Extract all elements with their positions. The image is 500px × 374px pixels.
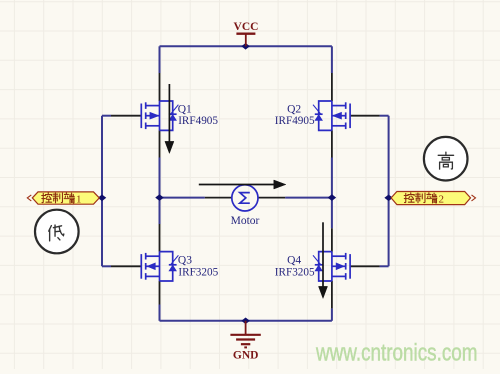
svg-text:IRF4905: IRF4905 bbox=[178, 115, 218, 127]
svg-text:2: 2 bbox=[439, 193, 445, 205]
svg-text:IRF4905: IRF4905 bbox=[275, 115, 315, 127]
wire right rail mid node to Q4 drain bbox=[331, 198, 333, 229]
wire left gate bus top corner bbox=[102, 115, 111, 117]
wire right gate bus bbox=[388, 116, 390, 267]
pin motor left bbox=[205, 197, 232, 199]
pin Q4 source bbox=[331, 281, 333, 308]
junction mid-right node bbox=[328, 195, 335, 201]
pin Q3 drain bbox=[159, 224, 161, 252]
wire bottom GND rail bbox=[160, 320, 332, 322]
pin Q1 source bbox=[159, 130, 161, 157]
svg-text:www.cntronics.com: www.cntronics.com bbox=[315, 339, 477, 366]
motor M1 circle bbox=[232, 185, 258, 211]
svg-text:Q4: Q4 bbox=[287, 254, 301, 266]
wire left rail mid node to Q3 drain bbox=[159, 198, 161, 224]
transistor Q3 bbox=[141, 252, 178, 281]
arrow current flow down through Q1 bbox=[165, 84, 174, 153]
svg-text:Motor: Motor bbox=[231, 215, 260, 227]
svg-text:IRF3205: IRF3205 bbox=[275, 266, 315, 278]
ground GND symbol bbox=[230, 321, 260, 348]
pin Q2 gate bbox=[350, 115, 380, 117]
junction left gate bus node bbox=[98, 195, 105, 201]
svg-text:IRF3205: IRF3205 bbox=[178, 266, 218, 278]
wire mid rail right (motor to node) bbox=[285, 197, 332, 199]
wire mid rail left (node to motor) bbox=[160, 197, 205, 199]
wire left gate bus bbox=[101, 116, 103, 267]
svg-text:GND: GND bbox=[233, 350, 259, 362]
wire left rail upper (VCC to Q1 drain) bbox=[159, 46, 161, 73]
motor M1 sigma glyph bbox=[240, 193, 250, 204]
pin Q4 gate bbox=[350, 265, 380, 267]
svg-text:Q1: Q1 bbox=[178, 104, 192, 116]
junction mid-left node bbox=[156, 195, 163, 201]
pin Q4 drain bbox=[331, 228, 333, 251]
wire right rail Q4 source to bottom bbox=[331, 308, 333, 320]
node annotation circle HIGH (gao) bbox=[424, 137, 468, 181]
wire right gate bus top corner bbox=[380, 115, 389, 117]
wire right rail Q2 source to mid node bbox=[331, 158, 333, 198]
pin Q2 drain bbox=[331, 73, 333, 101]
transistor Q2 bbox=[313, 101, 350, 130]
junction right gate bus node bbox=[385, 195, 392, 201]
svg-text:1: 1 bbox=[76, 193, 82, 205]
pin Q1 drain bbox=[159, 73, 161, 101]
junction GND node bbox=[242, 318, 249, 324]
pin Q2 source bbox=[331, 130, 333, 157]
pin Q1 gate bbox=[111, 115, 141, 117]
power VCC symbol bbox=[236, 34, 255, 47]
svg-text:Q2: Q2 bbox=[287, 104, 301, 116]
wire left rail Q1 source to mid node bbox=[159, 158, 161, 198]
wire left rail Q3 source to bottom bbox=[159, 305, 161, 321]
svg-text:Q3: Q3 bbox=[178, 254, 192, 266]
node annotation circle LOW (di) bbox=[35, 210, 79, 254]
transistor Q4 bbox=[313, 252, 350, 281]
wire left gate bus bottom corner bbox=[102, 265, 111, 267]
port control terminal 1 (kongzhiduan1) bbox=[27, 192, 99, 205]
arrow current flow right through motor bbox=[199, 180, 286, 189]
wire right rail upper (VCC to Q2 drain) bbox=[331, 46, 333, 73]
pin Q3 gate bbox=[111, 265, 141, 267]
arrow current flow down through Q4 bbox=[319, 222, 328, 298]
svg-text:VCC: VCC bbox=[234, 21, 259, 33]
pin motor right bbox=[258, 197, 285, 199]
junction VCC node bbox=[242, 44, 249, 50]
transistor Q1 bbox=[141, 101, 178, 130]
wire VCC top rail bbox=[160, 45, 332, 47]
pin Q3 source bbox=[159, 281, 161, 305]
port control terminal 2 (kongzhiduan2) bbox=[391, 192, 475, 206]
wire right gate bus bottom corner bbox=[380, 265, 389, 267]
